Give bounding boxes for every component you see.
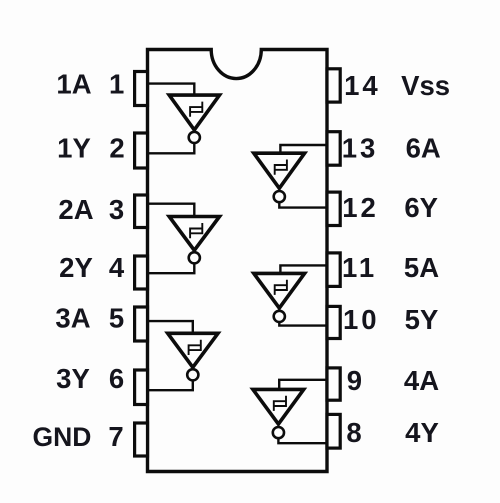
svg-text:Vss: Vss <box>401 70 450 101</box>
hysteresis symbol U1B <box>190 223 202 238</box>
wire U1E output to pin10 <box>279 322 327 326</box>
svg-text:1A: 1A <box>56 69 91 100</box>
svg-text:11: 11 <box>342 252 377 283</box>
svg-text:4A: 4A <box>404 365 439 396</box>
svg-text:13: 13 <box>342 133 379 164</box>
pin 2 <box>135 133 148 168</box>
inverter U1D triangle <box>253 389 304 424</box>
output bubble U1F <box>274 191 285 202</box>
inverter U1F triangle <box>254 153 305 188</box>
svg-text:3: 3 <box>109 194 124 225</box>
hysteresis symbol U1D <box>274 396 286 411</box>
svg-text:4: 4 <box>109 252 125 283</box>
svg-text:3Y: 3Y <box>56 363 90 394</box>
svg-text:2Y: 2Y <box>59 252 93 283</box>
wire pin5 to U1C input <box>148 321 193 333</box>
pin 8 <box>327 414 340 448</box>
svg-text:2A: 2A <box>58 194 93 225</box>
wire U1B output to pin4 <box>148 263 195 273</box>
inverter U1C triangle <box>168 333 218 367</box>
hysteresis symbol U1C <box>189 340 201 355</box>
svg-text:1: 1 <box>109 69 124 100</box>
svg-text:6Y: 6Y <box>404 192 438 223</box>
svg-text:5Y: 5Y <box>405 304 439 335</box>
output bubble U1B <box>189 252 200 263</box>
hysteresis symbol U1F <box>275 160 287 175</box>
svg-text:3A: 3A <box>55 303 90 334</box>
pin 13 <box>327 132 340 166</box>
pin 4 <box>135 256 148 289</box>
wire pin1 to U1A input <box>148 84 195 96</box>
svg-text:8: 8 <box>346 417 361 448</box>
pin 14 <box>327 69 340 102</box>
svg-text:5A: 5A <box>404 252 439 283</box>
svg-text:9: 9 <box>347 365 362 396</box>
wire U1F output to pin12 <box>279 202 327 207</box>
svg-text:4Y: 4Y <box>405 417 439 448</box>
svg-text:6A: 6A <box>406 133 441 164</box>
svg-text:5: 5 <box>109 303 124 334</box>
svg-text:7: 7 <box>108 421 123 452</box>
pin 1 <box>135 72 148 106</box>
svg-text:6: 6 <box>109 363 124 394</box>
output bubble U1D <box>273 427 284 438</box>
inverter U1E triangle <box>254 273 305 308</box>
svg-text:10: 10 <box>343 304 380 335</box>
pin 9 <box>327 368 340 400</box>
output bubble U1C <box>187 369 198 380</box>
wire U1A output to pin2 <box>148 143 195 153</box>
inverter U1A triangle <box>169 95 219 130</box>
svg-text:14: 14 <box>344 70 381 101</box>
svg-text:1Y: 1Y <box>57 133 91 164</box>
pin 3 <box>135 195 148 228</box>
svg-text:GND: GND <box>33 422 92 452</box>
wire pin13 to U1F input <box>280 145 327 153</box>
pin 7 <box>135 423 148 456</box>
pin 6 <box>135 370 148 405</box>
wire U1D output to pin8 <box>278 438 327 443</box>
pin 11 <box>327 253 340 287</box>
pin 12 <box>327 192 340 225</box>
output bubble U1E <box>274 311 285 322</box>
output bubble U1A <box>189 132 200 143</box>
wire U1C output to pin6 <box>148 380 193 390</box>
inverter U1B triangle <box>169 217 219 251</box>
pin 5 <box>135 307 148 341</box>
pin 10 <box>327 306 340 338</box>
wire pin9 to U1D input <box>279 380 327 390</box>
IC body U1 (DIP-14 outline with index notch) <box>148 50 328 472</box>
svg-text:2: 2 <box>109 133 124 164</box>
svg-text:12: 12 <box>342 192 379 223</box>
hysteresis symbol U1E <box>275 280 287 295</box>
hysteresis symbol U1A <box>190 102 202 117</box>
wire pin3 to U1B input <box>148 204 195 217</box>
wire pin11 to U1E input <box>280 265 327 273</box>
